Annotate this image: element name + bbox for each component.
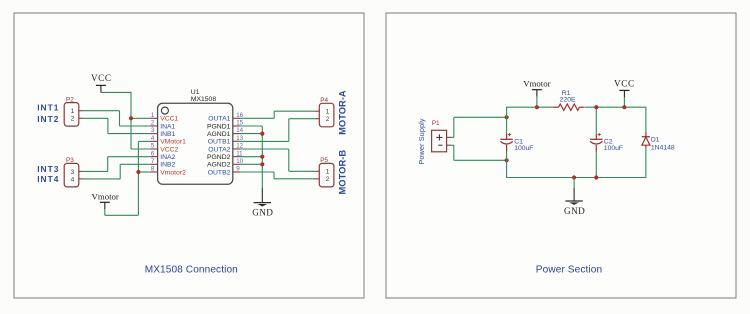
U1 pin 16 stub [233,117,241,119]
svg-text:P2: P2 [66,96,74,103]
svg-text:2: 2 [326,116,330,123]
svg-text:MOTOR-B: MOTOR-B [336,150,347,195]
junction Vmotor at rail [535,105,539,109]
svg-text:GND: GND [564,206,585,216]
wire OUTA1 to P4-1 [241,111,320,118]
connector P2 [64,103,79,127]
U1 pin 12 stub [233,148,241,150]
svg-text:MOTOR-A: MOTOR-A [336,90,347,135]
svg-text:P1: P1 [432,120,440,127]
svg-text:100uF: 100uF [604,145,623,152]
wire D1 branch [645,107,647,178]
svg-text:OUTA1: OUTA1 [208,116,230,123]
wire C1 branch [506,107,508,178]
svg-text:P3: P3 [66,157,74,164]
wire VCC: symbol to VCC1/VCC2 [101,92,150,149]
svg-text:5: 5 [151,143,155,150]
svg-text:1: 1 [326,169,330,176]
connector P1 (power supply terminal) [432,130,447,152]
left panel frame [14,13,364,298]
svg-text:MX1508 Connection: MX1508 Connection [145,265,238,276]
svg-text:INB2: INB2 [160,162,175,169]
svg-text:U1: U1 [191,89,200,96]
svg-text:Vmotor: Vmotor [523,79,550,89]
connector P5 [319,163,334,187]
junction C2 at bottom rail [594,175,598,179]
svg-text:INT2: INT2 [37,114,59,124]
wire INT3: P3-3 to INA2 [79,157,150,172]
svg-text:3: 3 [151,127,155,134]
diode D1 1N4148 [642,132,675,152]
svg-text:220E: 220E [560,97,576,104]
svg-text:100uF: 100uF [514,145,533,152]
svg-text:VCC2: VCC2 [160,146,178,153]
junction P1- at C1 [505,158,509,162]
svg-text:INT4: INT4 [37,174,59,184]
U1 pin 5 stub [150,148,158,150]
svg-text:1N4148: 1N4148 [651,144,675,151]
junction GND at pin 10 [260,162,264,166]
U1 pin 4 stub [150,140,158,142]
svg-text:OUTB2: OUTB2 [208,169,231,176]
wire C2 branch [595,107,597,177]
svg-text:INB1: INB1 [160,131,175,138]
U1 pin 13 stub [233,140,241,142]
wire Vmotor: symbol to VMotor1/Vmotor2 [105,141,150,215]
connector P4 [319,103,334,127]
svg-text:MX1508: MX1508 [191,96,217,103]
wire P1+ to C1 node [447,117,507,137]
svg-text:1: 1 [71,108,75,115]
U1 pin 2 stub [150,125,158,127]
wire bottom rail (GND net) [507,177,646,179]
junction VCC at rail [622,105,626,109]
svg-text:D1: D1 [651,137,660,144]
svg-text:2: 2 [326,176,330,183]
wire GND: PGND/AGND pins to ground [241,126,263,188]
capacitor C1 100uF [500,133,533,152]
svg-text:INA2: INA2 [160,154,175,161]
svg-text:1: 1 [326,109,330,116]
wire OUTB2 to P5-2 [241,172,320,179]
svg-text:8: 8 [151,166,155,173]
svg-text:VCC: VCC [91,73,112,83]
U1 pin 14 stub [233,133,241,135]
U1 pin 9 stub [233,171,241,173]
svg-text:PGND1: PGND1 [207,123,231,130]
U1 pin 8 stub [150,171,158,173]
wire top rail (VCC net) [585,106,646,108]
svg-text:4: 4 [71,176,75,183]
svg-text:1: 1 [151,112,155,119]
U1 pin 7 stub [150,163,158,165]
wire OUTA2 to P5-1 [241,149,320,171]
svg-text:P4: P4 [320,97,328,104]
svg-text:6: 6 [151,150,155,157]
ground GND (left) [261,188,263,203]
svg-text:3: 3 [71,169,75,176]
wire INT4: P3-4 to INB2 [79,164,150,179]
svg-text:7: 7 [151,158,155,165]
wire GND tap [573,178,575,189]
junction P1+ at C1 [505,115,509,119]
wire VCC stub to rail [623,97,625,107]
U1 pin 6 stub [150,156,158,158]
junction C2 at top rail [594,105,598,109]
svg-text:Power Supply: Power Supply [417,118,426,164]
wire OUTB1 to P4-2 [241,119,320,142]
svg-text:Vmotor: Vmotor [92,191,119,201]
svg-text:P5: P5 [320,157,328,164]
svg-text:INT1: INT1 [37,102,59,112]
U1 pin 10 stub [233,163,241,165]
svg-text:Power Section: Power Section [536,265,602,276]
svg-text:9: 9 [236,166,240,173]
wire P1- to C1 node [447,145,507,160]
right panel frame [386,13,736,298]
svg-text:VMotor1: VMotor1 [160,139,186,146]
svg-text:AGND2: AGND2 [207,162,231,169]
junction GND tap at bottom rail [572,175,576,179]
wire INT1: P2-1 to INA1 [79,111,150,126]
svg-text:Vmotor2: Vmotor2 [160,169,186,176]
svg-text:INT3: INT3 [37,164,59,174]
svg-text:VCC: VCC [614,79,635,89]
U1 pin 15 stub [233,125,241,127]
wire top rail (Vmotor net) [507,106,554,108]
svg-text:PGND2: PGND2 [207,154,231,161]
svg-text:OUTA2: OUTA2 [208,146,230,153]
svg-text:OUTB1: OUTB1 [208,139,231,146]
svg-text:INA1: INA1 [160,123,175,130]
resistor R1 [554,90,585,111]
junction GND at pin 14 [260,132,264,136]
capacitor C2 100uF [590,133,623,152]
svg-text:AGND1: AGND1 [207,131,231,138]
op-amp U1 body (MX1508 driver IC) [158,103,233,184]
junction Vmotor at pin 8 [136,170,140,174]
svg-text:2: 2 [71,116,75,123]
wire INT2: P2-2 to INB1 [79,118,150,133]
ground GND (right) [573,188,575,201]
U1 pin 11 stub [233,156,241,158]
connector P3 [64,163,79,187]
svg-text:GND: GND [252,208,273,218]
junction GND at pin 11 [260,155,264,159]
wire Vmotor stub to rail [536,97,538,108]
svg-text:4: 4 [151,135,155,142]
U1 pin 1 stub [150,117,158,119]
junction VCC at pin 1 [129,116,133,120]
U1 pin 3 stub [150,133,158,135]
svg-text:2: 2 [151,120,155,127]
svg-text:VCC1: VCC1 [160,116,178,123]
